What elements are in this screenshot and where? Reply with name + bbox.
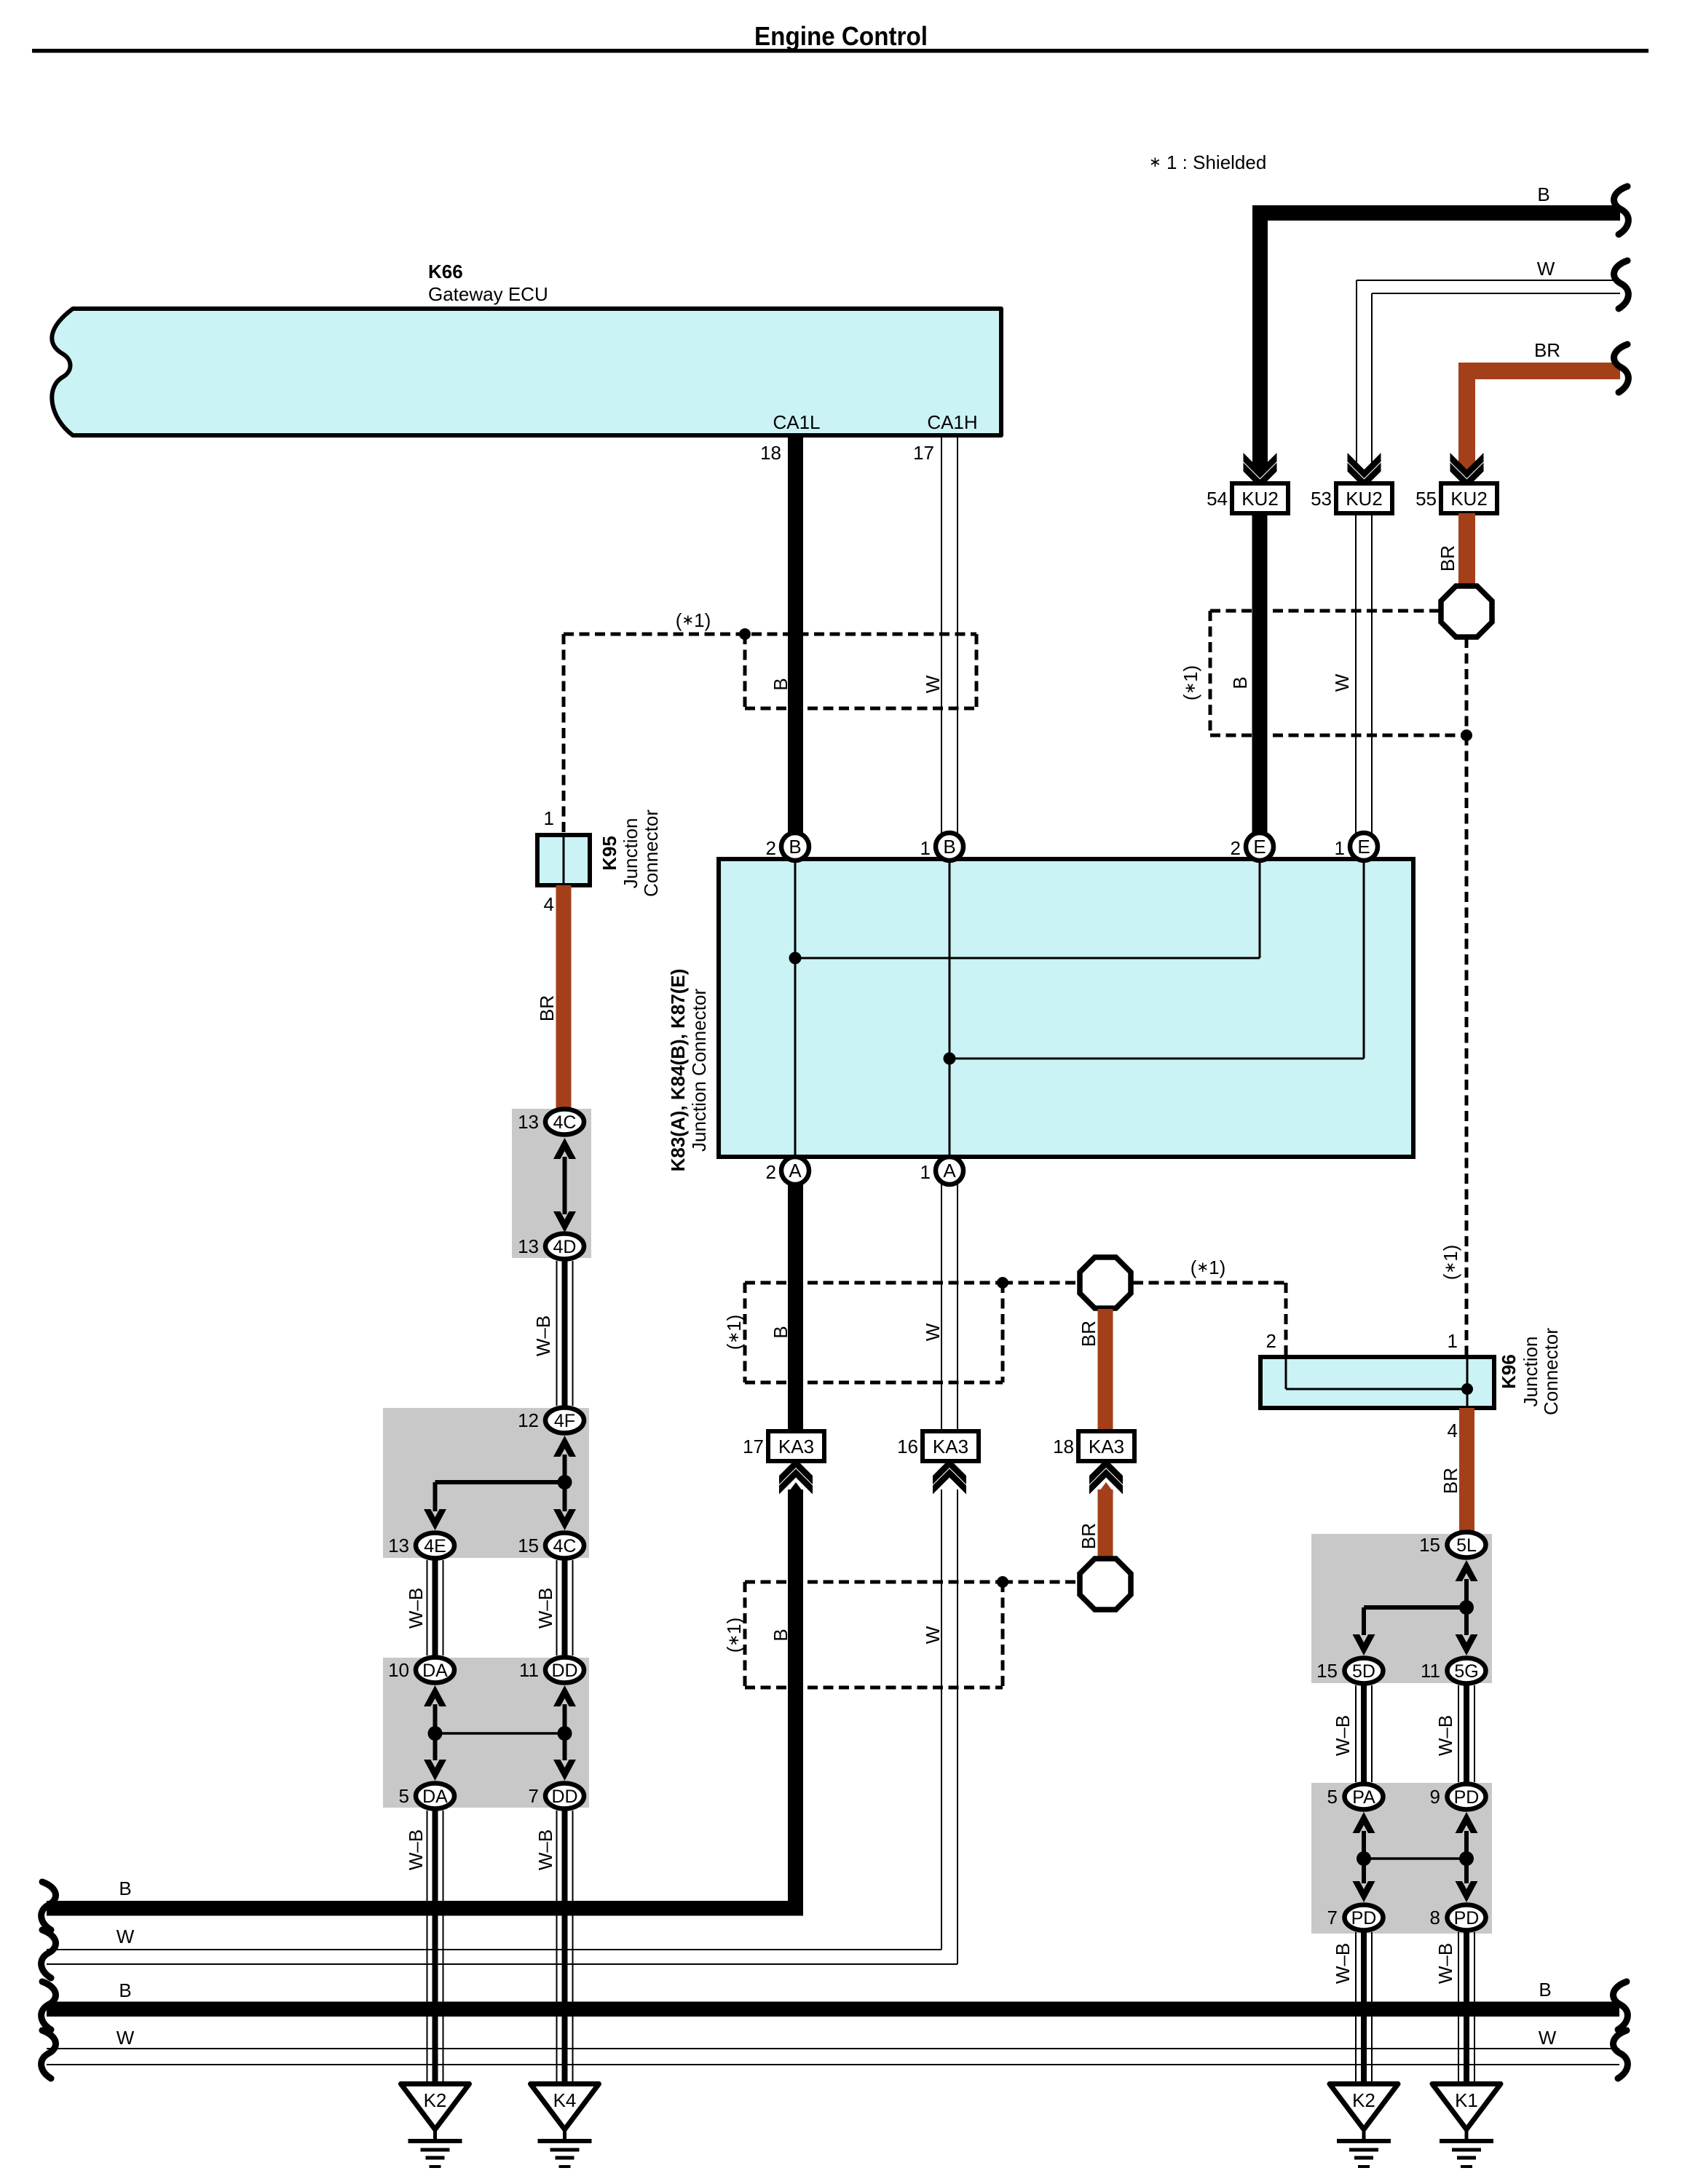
svg-text:B: B xyxy=(1229,676,1251,689)
svg-text:11: 11 xyxy=(1421,1660,1440,1682)
label W-B rotated xyxy=(1434,1943,1456,1984)
connector KA3 pin 16 xyxy=(897,1431,979,1461)
svg-text:B: B xyxy=(1537,183,1549,205)
break symbol bus B lower right xyxy=(1614,1982,1628,2030)
wire W-B from 4C to DD xyxy=(557,1560,573,1655)
svg-text:(∗1): (∗1) xyxy=(1191,1257,1226,1278)
junction connector K95 xyxy=(537,835,590,885)
label BR rotated below K96 xyxy=(1440,1468,1461,1494)
svg-text:W: W xyxy=(117,1926,135,1947)
svg-text:CA1H: CA1H xyxy=(927,411,977,433)
svg-text:Engine Control: Engine Control xyxy=(754,21,928,51)
wire W-B from PD8 to ground K1 xyxy=(1458,1932,1474,2084)
svg-text:K66: K66 xyxy=(428,261,463,282)
svg-text:K2: K2 xyxy=(424,2089,447,2111)
svg-text:BR: BR xyxy=(1078,1523,1099,1549)
pin circle A1 bottom xyxy=(920,1157,963,1184)
grey harness box DA/DD xyxy=(383,1658,589,1808)
svg-text:16: 16 xyxy=(897,1436,918,1457)
svg-text:1: 1 xyxy=(920,837,931,859)
wire W from pin A1 down to KA3 16 xyxy=(941,1184,942,1431)
svg-text:DD: DD xyxy=(551,1661,577,1681)
wire BR top right horizontal xyxy=(1458,363,1620,379)
wire BR below KU2 55 xyxy=(1458,513,1475,586)
arrow into DA xyxy=(424,1685,446,1706)
K66 Gateway ECU box xyxy=(52,309,1001,435)
arrow into PD lower right xyxy=(1456,1881,1478,1902)
svg-text:8: 8 xyxy=(1430,1907,1440,1928)
svg-text:(∗1): (∗1) xyxy=(1440,1245,1461,1281)
connector oval DD pin 11 xyxy=(519,1658,584,1683)
shield dashed drop to K96 pin 1 xyxy=(1465,735,1469,1357)
svg-text:K1: K1 xyxy=(1455,2089,1478,2111)
svg-text:W: W xyxy=(1331,673,1353,692)
svg-text:5D: 5D xyxy=(1352,1661,1375,1682)
pin circle B1 top xyxy=(920,833,963,860)
arrow into 5G xyxy=(1456,1634,1478,1655)
label BR rotated above octagon3 xyxy=(1078,1523,1099,1549)
junction dot box3 xyxy=(997,1576,1008,1588)
chevrons below KA3 16 xyxy=(933,1459,966,1484)
arrow into 4C xyxy=(553,1138,576,1159)
svg-text:5L: 5L xyxy=(1456,1535,1477,1556)
label W-B rotated xyxy=(534,1588,556,1629)
svg-text:W: W xyxy=(1539,2027,1557,2049)
svg-text:18: 18 xyxy=(760,442,781,464)
wire W-B from PD7 to ground K2 xyxy=(1356,1932,1372,2084)
wire BR octagon2 to KA3 18 xyxy=(1098,1309,1113,1431)
junction dot on dashed line xyxy=(739,628,751,640)
label W-B rotated xyxy=(405,1829,427,1870)
svg-text:B: B xyxy=(119,1979,131,2001)
svg-text:PD: PD xyxy=(1454,1908,1480,1928)
svg-text:K96: K96 xyxy=(1498,1354,1520,1389)
wire B top right horizontal xyxy=(1252,205,1620,221)
svg-text:Junction Connector: Junction Connector xyxy=(688,989,710,1152)
label B rotated box1 xyxy=(770,678,791,690)
label W-B rotated xyxy=(1434,1715,1456,1756)
svg-text:18: 18 xyxy=(1053,1436,1074,1457)
label K96 Junction Connector rotated xyxy=(1498,1328,1562,1415)
svg-text:W: W xyxy=(922,1626,944,1644)
svg-text:BR: BR xyxy=(1534,339,1560,361)
svg-text:BR: BR xyxy=(1440,1468,1461,1494)
label (*1) rotated box2 xyxy=(723,1315,745,1350)
svg-text:4D: 4D xyxy=(553,1237,577,1257)
svg-text:2: 2 xyxy=(1231,837,1241,859)
svg-text:W–B: W–B xyxy=(532,1315,554,1356)
wire W-B from 4E to DA xyxy=(427,1560,443,1655)
wire W-B from DD7 to ground K4 xyxy=(557,1811,573,2084)
arrow into 4C lower xyxy=(553,1509,576,1530)
connector oval DA pin 5 xyxy=(399,1784,454,1809)
svg-text:Connector: Connector xyxy=(640,810,662,897)
svg-text:7: 7 xyxy=(529,1785,539,1807)
arrow into 4F xyxy=(553,1436,576,1457)
svg-text:K95: K95 xyxy=(599,836,620,871)
connector oval 4D pin 13 xyxy=(518,1234,584,1259)
svg-text:7: 7 xyxy=(1327,1907,1338,1928)
break symbol BR top right xyxy=(1614,344,1629,392)
svg-text:W–B: W–B xyxy=(1434,1943,1456,1984)
wire B below KA3 17 to bus xyxy=(788,1489,803,1916)
break symbol bus W upper left xyxy=(42,1930,56,1978)
arrow into DA lower xyxy=(424,1760,446,1781)
svg-text:55: 55 xyxy=(1416,488,1437,510)
svg-text:BR: BR xyxy=(1078,1321,1099,1347)
svg-text:∗ 1 : Shielded: ∗ 1 : Shielded xyxy=(1149,151,1266,173)
svg-text:B: B xyxy=(770,678,791,690)
wire BR top right vertical drop xyxy=(1458,363,1475,464)
label K83 K84 K87 rotated xyxy=(667,969,710,1172)
svg-text:W–B: W–B xyxy=(405,1829,427,1870)
connector KA3 pin 18 xyxy=(1053,1431,1134,1461)
label (*1) rotated top right box xyxy=(1180,665,1201,701)
svg-text:Connector: Connector xyxy=(1540,1328,1562,1415)
svg-text:13: 13 xyxy=(518,1235,539,1257)
arrow into 4D xyxy=(553,1211,576,1233)
wire DA to junction xyxy=(433,1704,438,1733)
svg-text:1: 1 xyxy=(1335,837,1345,859)
svg-text:5: 5 xyxy=(399,1785,409,1807)
label B rotated top right box xyxy=(1229,676,1251,689)
label BR above octagon xyxy=(1437,545,1458,571)
arrow into DD lower xyxy=(553,1760,576,1781)
wire B below KU2 54 xyxy=(1252,513,1268,834)
svg-text:(∗1): (∗1) xyxy=(1180,665,1201,701)
svg-text:4: 4 xyxy=(544,893,554,915)
chevrons into KU2 54 xyxy=(1244,453,1277,478)
chevrons below KA3 17 xyxy=(779,1459,813,1484)
svg-text:W: W xyxy=(1537,258,1555,280)
label W-B rotated xyxy=(534,1829,556,1870)
branch to 5D xyxy=(1364,1605,1466,1610)
label W rotated top right box xyxy=(1331,673,1353,692)
wire W-B from DA5 to ground K2 xyxy=(427,1811,443,2084)
svg-text:13: 13 xyxy=(518,1111,539,1133)
svg-text:5G: 5G xyxy=(1454,1661,1478,1682)
svg-text:E: E xyxy=(1253,836,1266,858)
svg-text:B: B xyxy=(1539,1979,1551,2001)
break symbol W top right xyxy=(1614,261,1629,309)
shield dashed from octagon2 to K96 pin 2 xyxy=(1133,1281,1286,1285)
svg-text:17: 17 xyxy=(743,1436,764,1457)
svg-text:B: B xyxy=(770,1629,791,1641)
pin circle A2 bottom xyxy=(766,1157,809,1184)
svg-text:Junction: Junction xyxy=(1520,1337,1541,1407)
chevrons below KA3 18 xyxy=(1089,1459,1123,1484)
label W rotated box1 xyxy=(922,675,944,693)
svg-text:W–B: W–B xyxy=(1434,1715,1456,1756)
wire between 4C and 4D xyxy=(563,1157,567,1214)
svg-text:Junction: Junction xyxy=(620,818,641,889)
wire W from CA1H pin 17 xyxy=(941,435,942,834)
connector KA3 pin 17 xyxy=(743,1431,824,1461)
junction connector K96 xyxy=(1260,1357,1494,1408)
svg-text:4: 4 xyxy=(1448,1420,1458,1441)
break symbol bus B upper left xyxy=(42,1882,56,1930)
wire BR below KA3 18 to octagon 3 xyxy=(1098,1489,1113,1558)
shield octagon 2 xyxy=(1080,1257,1131,1308)
wire BR from K96 pin 4 to 5L xyxy=(1459,1408,1474,1532)
wires to junction dots xyxy=(1362,1831,1366,1859)
wire 4F to junction xyxy=(563,1455,567,1482)
wire B from pin A2 down to KA3 17 xyxy=(788,1184,803,1431)
svg-text:15: 15 xyxy=(1316,1660,1338,1682)
grey harness box 4C/4D xyxy=(512,1109,591,1258)
svg-text:1: 1 xyxy=(544,807,554,829)
svg-text:(∗1): (∗1) xyxy=(676,609,711,631)
wire W-B from 5D to PA xyxy=(1356,1685,1372,1782)
connector oval 5L pin 15 xyxy=(1419,1532,1485,1558)
svg-text:B: B xyxy=(943,836,955,858)
svg-text:BR: BR xyxy=(1437,545,1458,571)
break symbol bus W lower right xyxy=(1614,2030,1628,2078)
grey harness box PA/PD xyxy=(1311,1783,1492,1934)
break symbol B top right xyxy=(1614,186,1629,234)
svg-text:B: B xyxy=(789,836,801,858)
title rule xyxy=(32,49,1649,53)
bus wire W lower xyxy=(47,2048,1619,2049)
label K95 Junction Connector rotated xyxy=(599,810,662,897)
break symbol bus B lower left xyxy=(42,1982,56,2030)
arrow into 5L xyxy=(1456,1560,1478,1581)
label W rotated box3 xyxy=(922,1626,944,1644)
wire W-B from 5G to PD xyxy=(1458,1685,1474,1782)
bus wire B upper xyxy=(47,1901,803,1916)
svg-text:A: A xyxy=(943,1160,956,1182)
ground K2 right xyxy=(1330,2084,1398,2167)
svg-text:1: 1 xyxy=(920,1161,931,1183)
label B rotated box3 xyxy=(770,1629,791,1641)
svg-text:2: 2 xyxy=(766,1161,776,1183)
svg-text:PD: PD xyxy=(1351,1908,1377,1928)
label BR rotated above KA3 18 xyxy=(1078,1321,1099,1347)
pin circle B2 top xyxy=(766,833,809,860)
svg-text:CA1L: CA1L xyxy=(773,411,820,433)
label W rotated box2 xyxy=(922,1323,944,1341)
junction dot grey box 2 xyxy=(558,1475,572,1489)
junction dot box2 xyxy=(997,1277,1008,1289)
junction dot on shield dashed line xyxy=(1461,729,1472,741)
label W-B rotated xyxy=(1332,1943,1354,1984)
connector oval 4C pin 13 xyxy=(518,1109,584,1135)
svg-text:KA3: KA3 xyxy=(933,1436,968,1457)
wire DD to junction xyxy=(563,1704,567,1733)
connector oval DD pin 7 xyxy=(529,1784,584,1809)
svg-text:54: 54 xyxy=(1207,488,1228,510)
connector KU2 pin 53 xyxy=(1311,483,1392,513)
arrow into 4E xyxy=(424,1509,446,1530)
svg-text:4C: 4C xyxy=(553,1112,577,1133)
svg-text:KA3: KA3 xyxy=(778,1436,814,1457)
label (*1) rotated above K96 xyxy=(1440,1245,1461,1281)
chevrons into KU2 53 xyxy=(1348,453,1381,478)
branch wire to 4E xyxy=(435,1480,565,1484)
wire B top right vertical drop xyxy=(1252,205,1268,466)
svg-text:KU2: KU2 xyxy=(1241,488,1279,510)
svg-text:4C: 4C xyxy=(553,1536,577,1556)
svg-text:53: 53 xyxy=(1311,488,1332,510)
svg-text:11: 11 xyxy=(519,1659,539,1681)
connector oval PA pin 5 xyxy=(1327,1784,1383,1810)
label BR rotated xyxy=(536,995,558,1021)
svg-text:W–B: W–B xyxy=(534,1588,556,1629)
ground K4 xyxy=(531,2084,599,2167)
bus wire W upper xyxy=(47,1949,941,1950)
connector oval DA pin 10 xyxy=(388,1658,454,1683)
svg-text:W–B: W–B xyxy=(1332,1715,1354,1756)
svg-text:E: E xyxy=(1357,836,1370,858)
svg-text:BR: BR xyxy=(536,995,558,1021)
connector oval PD pin 8 xyxy=(1430,1905,1486,1931)
svg-text:KA3: KA3 xyxy=(1089,1436,1124,1457)
label W-B rotated xyxy=(405,1588,427,1629)
svg-text:PA: PA xyxy=(1352,1787,1375,1808)
shield dashed line under ECU xyxy=(564,634,976,835)
chevrons into KU2 55 xyxy=(1450,453,1484,478)
svg-text:Gateway ECU: Gateway ECU xyxy=(428,283,548,305)
arrow into 5D xyxy=(1353,1634,1375,1655)
svg-text:10: 10 xyxy=(388,1659,409,1681)
svg-text:K2: K2 xyxy=(1352,2089,1375,2111)
svg-text:KU2: KU2 xyxy=(1450,488,1488,510)
svg-text:1: 1 xyxy=(1448,1330,1458,1352)
svg-text:15: 15 xyxy=(1419,1534,1440,1556)
svg-text:2: 2 xyxy=(1266,1330,1276,1352)
ground K1 xyxy=(1432,2084,1501,2167)
shield octagon top right xyxy=(1441,586,1492,637)
svg-text:K83(A), K84(B), K87(E): K83(A), K84(B), K87(E) xyxy=(667,969,689,1172)
label B rotated box2 xyxy=(770,1326,791,1338)
connector KU2 pin 55 xyxy=(1416,483,1497,513)
svg-text:13: 13 xyxy=(388,1535,409,1556)
connector oval 4E pin 13 xyxy=(388,1533,454,1559)
svg-text:5: 5 xyxy=(1327,1786,1338,1808)
svg-text:W–B: W–B xyxy=(1332,1943,1354,1984)
svg-text:K4: K4 xyxy=(553,2089,577,2111)
svg-text:W–B: W–B xyxy=(405,1588,427,1629)
svg-text:B: B xyxy=(770,1326,791,1338)
svg-text:DD: DD xyxy=(551,1787,577,1807)
svg-text:(∗1): (∗1) xyxy=(723,1315,745,1350)
svg-text:(∗1): (∗1) xyxy=(723,1618,745,1653)
connector oval 4F pin 12 xyxy=(518,1408,584,1433)
internal wiring of junction connector xyxy=(795,860,1364,1158)
svg-text:15: 15 xyxy=(518,1535,539,1556)
arrow into DD xyxy=(553,1685,576,1706)
svg-text:12: 12 xyxy=(518,1409,539,1431)
svg-text:B: B xyxy=(119,1878,131,1899)
svg-text:KU2: KU2 xyxy=(1346,488,1383,510)
connector KU2 pin 54 xyxy=(1207,483,1288,513)
ground K2 left xyxy=(401,2084,470,2167)
svg-text:2: 2 xyxy=(766,837,776,859)
svg-text:4F: 4F xyxy=(554,1411,575,1431)
connector oval PD pin 9 xyxy=(1430,1784,1486,1810)
arrow into PD xyxy=(1456,1812,1478,1833)
shield octagon 3 xyxy=(1080,1559,1131,1610)
svg-text:W: W xyxy=(922,675,944,693)
wire W top right horizontal (double line) xyxy=(1357,280,1620,281)
pin circle E2 top xyxy=(1231,833,1274,860)
wire W top right vertical drop xyxy=(1356,280,1357,464)
junction dot xyxy=(1459,1600,1474,1615)
junction connector K83(A) K84(B) K87(E) box xyxy=(719,859,1413,1157)
label W-B rotated xyxy=(1332,1715,1354,1756)
connector oval PD pin 7 xyxy=(1327,1905,1383,1931)
wire BR from K95 pin 4 xyxy=(556,885,572,1108)
grey harness box 4F/4E/4C xyxy=(383,1408,589,1558)
svg-text:9: 9 xyxy=(1430,1786,1440,1808)
wire W below KU2 53 xyxy=(1355,513,1357,834)
break symbol bus W lower left xyxy=(42,2030,56,2078)
bus wire B lower xyxy=(47,2002,1619,2017)
wire W below KA3 16 to bus xyxy=(941,1489,942,1950)
svg-text:DA: DA xyxy=(422,1787,448,1807)
label (*1) rotated box3 xyxy=(723,1618,745,1653)
wire B from CA1L pin 18 xyxy=(788,435,803,834)
svg-text:W: W xyxy=(922,1323,944,1341)
shield dashed box top right xyxy=(1210,611,1466,735)
svg-text:17: 17 xyxy=(913,442,934,464)
svg-text:4E: 4E xyxy=(424,1536,446,1556)
connector oval 4C pin 15 xyxy=(518,1533,584,1559)
wire W-B from 4D to 4F xyxy=(557,1261,573,1406)
label W-B rotated xyxy=(532,1315,554,1356)
wires down to lower ovals xyxy=(433,1733,438,1760)
junction dots and link xyxy=(428,1726,443,1741)
svg-text:PD: PD xyxy=(1454,1787,1480,1808)
arrow into PA xyxy=(1353,1812,1375,1833)
svg-text:W–B: W–B xyxy=(534,1829,556,1870)
connector oval 5D pin 15 xyxy=(1316,1658,1383,1684)
svg-text:W: W xyxy=(117,2027,135,2049)
grey harness box 5L/5D/5G xyxy=(1311,1534,1492,1683)
connector oval 5G pin 11 xyxy=(1421,1658,1486,1684)
pin circle E1 top xyxy=(1335,833,1378,860)
wire 5L to junction xyxy=(1464,1579,1469,1607)
svg-text:DA: DA xyxy=(422,1661,448,1681)
shield dashed box 2 xyxy=(745,1283,1078,1382)
shield dashed box 3 xyxy=(745,1582,1078,1688)
svg-text:A: A xyxy=(789,1160,802,1182)
arrow into PD lower left xyxy=(1353,1881,1375,1902)
